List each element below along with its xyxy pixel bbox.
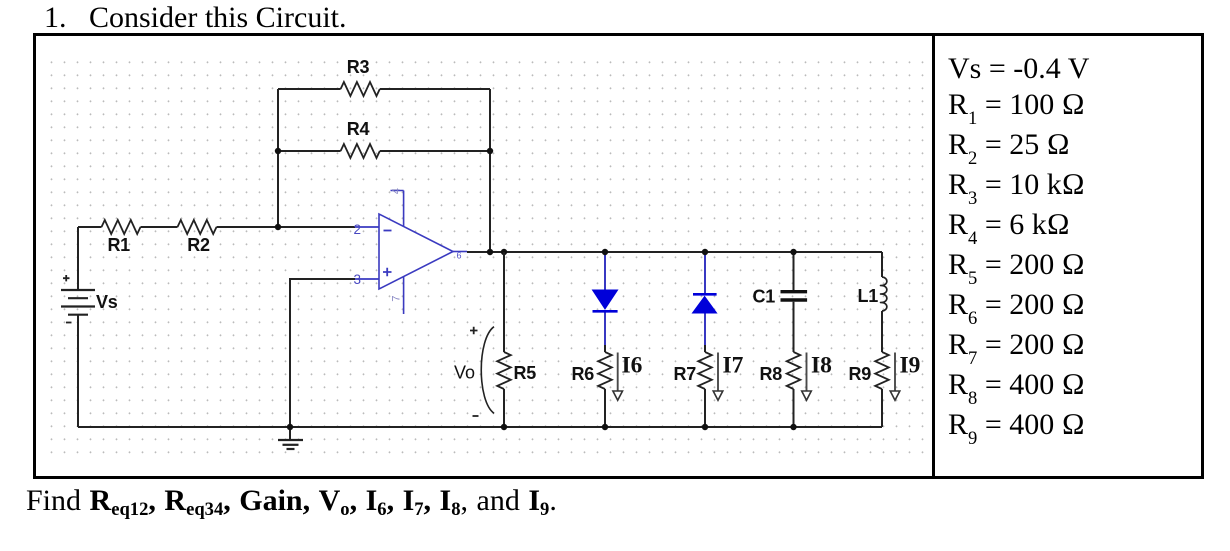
- resistor R7: [698, 352, 712, 389]
- wire: feedback left vertical x=278: [277, 89, 279, 227]
- junction R6 top: [602, 249, 608, 255]
- junction R7 bottom: [702, 424, 708, 430]
- svg-text:Vs: Vs: [96, 292, 118, 312]
- battery minus sign: [66, 322, 72, 324]
- divider between circuit and values: [932, 33, 935, 479]
- pin 6 stub: [453, 251, 467, 253]
- junction C1 top: [790, 249, 796, 255]
- diode D6 bar: [593, 310, 618, 313]
- voltage source Vs (battery): [61, 290, 95, 315]
- svg-text:R2: R2: [187, 235, 210, 255]
- resistor R6: [598, 352, 612, 389]
- capacitor C1: [781, 292, 808, 300]
- current arrow I7: [713, 353, 723, 401]
- diode D7 bar: [693, 293, 717, 296]
- svg-text:2: 2: [354, 222, 362, 237]
- op-amp top power pin: [391, 191, 404, 227]
- pin 2 stub: [355, 226, 379, 228]
- svg-text:R6: R6: [572, 364, 595, 384]
- svg-text:R9: R9: [849, 364, 872, 384]
- svg-text:Vo: Vo: [454, 363, 475, 383]
- current arrow I8: [802, 353, 812, 401]
- resistor R1: [102, 220, 141, 234]
- op-amp minus sign: [384, 230, 392, 232]
- wire: R3 top row: [278, 88, 490, 90]
- svg-text:R5: R5: [514, 363, 537, 383]
- Vo plus sign: [470, 327, 478, 334]
- junction R7 top: [702, 249, 708, 255]
- op-amp U1: [354, 188, 468, 314]
- wire: bottom rail: [78, 426, 882, 428]
- svg-text:C1: C1: [753, 287, 776, 307]
- svg-text:7: 7: [391, 295, 403, 301]
- junction R5 top: [501, 249, 507, 255]
- diode D7: [693, 297, 717, 314]
- svg-text:I6: I6: [622, 353, 643, 379]
- pin 3 stub: [355, 278, 379, 280]
- resistor R9: [875, 352, 889, 389]
- junction R4 right: [487, 148, 493, 154]
- junction R4 left: [275, 148, 281, 154]
- resistor R4: [341, 144, 380, 158]
- junction R5 bottom: [501, 424, 507, 430]
- resistor R2: [178, 220, 217, 234]
- diode D6: [593, 290, 618, 309]
- inductor L1: [881, 277, 887, 311]
- wire: L1/R9 branch: [881, 252, 883, 427]
- svg-text:R4: R4: [347, 119, 370, 139]
- junction ground node: [287, 424, 293, 430]
- question text: [26, 484, 557, 518]
- svg-text:I8: I8: [811, 353, 832, 379]
- svg-text:R1: R1: [107, 235, 130, 255]
- wire: R6 branch lower: [604, 345, 606, 427]
- wire: R7 branch blue segments: [704, 252, 706, 345]
- wire: left vertical to battery: [77, 227, 79, 290]
- current arrow I9: [890, 353, 900, 401]
- junction feedback-output: [487, 249, 493, 255]
- resistor R5: [497, 352, 511, 389]
- svg-text:6: 6: [457, 251, 462, 261]
- junction input node: [275, 224, 281, 230]
- svg-text:4: 4: [391, 188, 403, 194]
- wire: pin3 to ground net: [290, 279, 355, 427]
- svg-text:L1: L1: [858, 286, 879, 306]
- title: [44, 1, 347, 35]
- wire: R7 branch lower: [704, 345, 706, 427]
- wire: R6 branch blue segments: [604, 252, 606, 345]
- wire: battery bottom to bottom rail: [77, 315, 79, 427]
- values panel: [948, 51, 1089, 447]
- Vo bracket: [481, 327, 494, 414]
- outer box: [33, 33, 1204, 479]
- wire: main input rail y=227: [78, 226, 355, 228]
- svg-text:I7: I7: [723, 353, 744, 379]
- svg-text:R8: R8: [760, 364, 783, 384]
- junction R8 bottom: [790, 424, 796, 430]
- resistor R3: [341, 82, 380, 96]
- op-amp plus sign: [383, 268, 392, 276]
- wire: R4 row: [278, 150, 490, 152]
- ground: [278, 427, 303, 449]
- Vo minus sign: [473, 415, 479, 417]
- op-amp bottom power pin: [403, 277, 405, 315]
- svg-text:R7: R7: [674, 364, 697, 384]
- dotted grid: [47, 55, 927, 459]
- resistor R8: [787, 352, 801, 389]
- wire: output rail y=252: [467, 251, 882, 253]
- svg-text:R3: R3: [347, 57, 370, 77]
- wire: feedback right vertical x=490: [489, 89, 491, 252]
- current arrow I6: [613, 353, 623, 401]
- battery plus sign: [63, 275, 70, 281]
- svg-text:I9: I9: [900, 353, 921, 379]
- wire: R5 branch: [503, 252, 505, 427]
- wire: C1/R8 branch: [793, 252, 795, 427]
- junction R6 bottom: [602, 424, 608, 430]
